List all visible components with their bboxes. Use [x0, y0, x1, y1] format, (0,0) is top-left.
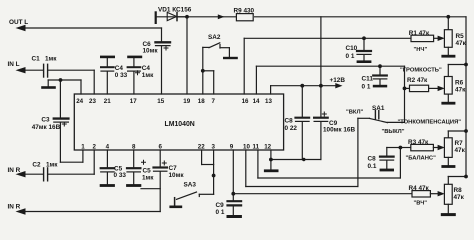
svg-text:9: 9	[230, 144, 234, 151]
svg-text:1мк: 1мк	[142, 72, 154, 79]
svg-text:10мк: 10мк	[169, 172, 185, 179]
svg-text:23: 23	[89, 98, 96, 105]
svg-text:17: 17	[130, 98, 137, 105]
svg-text:C3: C3	[41, 117, 50, 124]
svg-text:18: 18	[198, 98, 205, 105]
svg-text:1: 1	[81, 144, 85, 151]
svg-text:LM1040N: LM1040N	[165, 121, 195, 128]
svg-text:1мк: 1мк	[46, 162, 58, 169]
svg-text:C8: C8	[368, 156, 377, 163]
svg-text:C5: C5	[143, 168, 152, 175]
svg-text:R1 47к: R1 47к	[409, 30, 430, 37]
svg-text:8: 8	[132, 144, 136, 151]
svg-text:0 22: 0 22	[285, 125, 298, 132]
svg-text:12: 12	[264, 144, 271, 151]
svg-text:10мк: 10мк	[143, 48, 159, 55]
svg-text:C7: C7	[169, 165, 178, 172]
svg-text:14: 14	[253, 98, 260, 105]
svg-text:21: 21	[104, 98, 111, 105]
svg-text:0 1: 0 1	[362, 84, 371, 91]
svg-text:47к: 47к	[454, 194, 465, 201]
svg-text:VD1 КС156: VD1 КС156	[158, 7, 192, 14]
svg-text:16: 16	[242, 98, 249, 105]
svg-text:SA1: SA1	[372, 105, 385, 112]
svg-text:IN R: IN R	[8, 204, 21, 211]
svg-text:"ГРОМКОСТЬ": "ГРОМКОСТЬ"	[400, 68, 442, 74]
svg-text:OUT L: OUT L	[9, 19, 28, 26]
svg-text:11: 11	[253, 144, 260, 151]
svg-text:R3 47к: R3 47к	[408, 139, 429, 146]
svg-text:"ВЧ": "ВЧ"	[414, 201, 428, 207]
svg-text:3: 3	[212, 144, 216, 151]
svg-text:0 33: 0 33	[115, 72, 128, 79]
svg-text:47к: 47к	[456, 40, 467, 47]
svg-text:0.1: 0.1	[368, 163, 377, 170]
svg-text:"ВКЛ": "ВКЛ"	[346, 110, 364, 116]
svg-text:4: 4	[106, 144, 110, 151]
svg-text:2: 2	[93, 144, 97, 151]
svg-text:C4: C4	[142, 65, 151, 72]
svg-text:0 1: 0 1	[346, 53, 355, 60]
svg-text:0 33: 0 33	[114, 172, 127, 179]
svg-text:24: 24	[76, 98, 83, 105]
svg-text:47мк 16В: 47мк 16В	[32, 124, 61, 131]
svg-text:+12В: +12В	[330, 77, 346, 84]
svg-text:"НЧ": "НЧ"	[414, 47, 428, 53]
svg-text:22: 22	[198, 144, 205, 151]
svg-text:C11: C11	[362, 76, 374, 83]
svg-text:C8: C8	[285, 118, 294, 125]
svg-text:R4 47к: R4 47к	[409, 185, 430, 192]
svg-text:C1: C1	[32, 56, 41, 63]
svg-text:C2: C2	[32, 162, 41, 169]
svg-text:C9: C9	[216, 202, 225, 209]
svg-text:100мк 16В: 100мк 16В	[323, 127, 355, 134]
svg-text:SA3: SA3	[184, 182, 197, 189]
svg-text:"ТОНКОМПЕНСАЦИЯ": "ТОНКОМПЕНСАЦИЯ"	[398, 119, 462, 125]
svg-text:1мк: 1мк	[45, 56, 57, 63]
svg-text:0 1: 0 1	[216, 209, 225, 216]
svg-text:R9 430: R9 430	[234, 8, 255, 15]
svg-text:"БАЛАНС": "БАЛАНС"	[406, 156, 437, 162]
svg-text:15: 15	[157, 98, 164, 105]
svg-text:19: 19	[183, 98, 190, 105]
svg-text:6: 6	[159, 144, 163, 151]
svg-text:10: 10	[243, 144, 250, 151]
svg-text:C4: C4	[115, 65, 124, 72]
svg-text:IN L: IN L	[8, 61, 20, 68]
svg-text:47к: 47к	[455, 147, 466, 154]
svg-text:IN R: IN R	[8, 167, 21, 174]
svg-text:1мк: 1мк	[142, 175, 154, 182]
svg-text:7: 7	[212, 98, 216, 105]
svg-text:SA2: SA2	[208, 34, 221, 41]
svg-text:47к: 47к	[455, 86, 466, 93]
svg-text:R2 47к: R2 47к	[407, 77, 428, 84]
svg-text:"ВЫКЛ": "ВЫКЛ"	[382, 129, 405, 135]
svg-text:C10: C10	[346, 45, 358, 52]
svg-text:13: 13	[265, 98, 272, 105]
